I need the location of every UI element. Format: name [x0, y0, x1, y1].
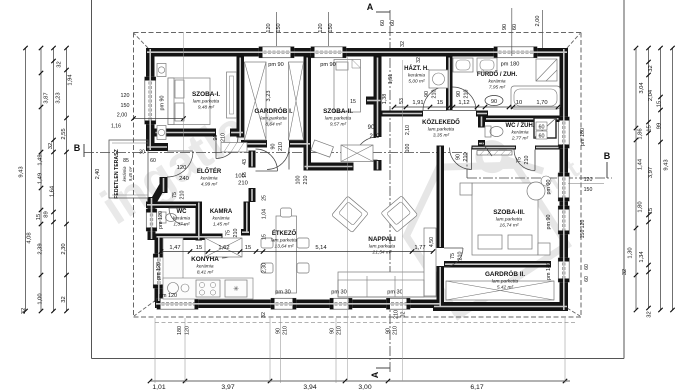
svg-text:SZOBA-II.: SZOBA-II. — [323, 108, 353, 115]
armchair nappali 2 — [381, 196, 418, 233]
washer hazt h — [429, 70, 448, 88]
wall hazt h south — [382, 111, 424, 117]
svg-text:60: 60 — [584, 276, 590, 282]
svg-text:kerámia: kerámia — [122, 166, 127, 182]
svg-text:120: 120 — [584, 177, 593, 183]
wall wc zuh south thin — [472, 146, 517, 150]
wall exterior left upper — [146, 48, 155, 151]
svg-text:9,45 m²: 9,45 m² — [128, 166, 133, 181]
bottom dimension line — [150, 380, 570, 382]
svg-text:3,97: 3,97 — [221, 384, 234, 390]
svg-text:FEDETLEN TERASZ: FEDETLEN TERASZ — [114, 148, 120, 198]
wall exterior bottom left section — [155, 300, 441, 309]
svg-text:60: 60 — [539, 125, 545, 131]
svg-text:3,87: 3,87 — [44, 92, 50, 103]
window top furdo pm180 — [494, 47, 537, 58]
washbasins furdo — [453, 58, 473, 72]
wall exterior top — [146, 48, 568, 57]
window bottom kitchen pm120 — [157, 298, 198, 309]
interior dim chain hazt/furdo y107 — [394, 106, 558, 108]
door szoba III 75/210 — [514, 150, 535, 171]
svg-text:pm 180: pm 180 — [546, 262, 552, 280]
svg-text:210: 210 — [463, 153, 469, 162]
svg-text:2,77 m²: 2,77 m² — [511, 135, 529, 141]
svg-text:75: 75 — [226, 230, 232, 236]
svg-text:✳: ✳ — [233, 285, 239, 293]
svg-text:KÖZLEKEDŐ: KÖZLEKEDŐ — [422, 119, 460, 126]
svg-text:kerámia: kerámia — [196, 263, 213, 269]
svg-text:kerámia: kerámia — [200, 175, 217, 181]
svg-text:13,64 m²: 13,64 m² — [275, 243, 294, 249]
svg-text:210: 210 — [303, 176, 309, 185]
svg-text:2,30: 2,30 — [61, 243, 67, 254]
svg-text:pm 90: pm 90 — [160, 96, 166, 111]
svg-text:B: B — [604, 151, 611, 161]
window bottom nappali pm30 right — [387, 298, 411, 309]
svg-text:1,47: 1,47 — [169, 245, 180, 251]
wall wc zuh west lower post — [478, 140, 485, 147]
window bottom nappali pm30 left — [330, 298, 352, 309]
svg-text:60: 60 — [380, 20, 386, 26]
svg-text:pm 120: pm 120 — [158, 211, 164, 229]
wall exterior left kitchen part — [155, 236, 164, 302]
svg-text:32: 32 — [401, 312, 407, 318]
wall szoba I south east piece — [230, 129, 244, 137]
svg-text:SZOBA-III.: SZOBA-III. — [493, 209, 525, 216]
svg-text:kerámia: kerámia — [488, 78, 505, 84]
svg-text:60: 60 — [512, 24, 518, 30]
door kamra 75/210 — [222, 240, 240, 258]
svg-text:150: 150 — [121, 103, 130, 109]
wardrobe szoba II south — [341, 145, 373, 162]
svg-text:1,70: 1,70 — [536, 100, 547, 106]
svg-text:GARDRÓB I.: GARDRÓB I. — [254, 106, 293, 115]
svg-text:100: 100 — [405, 144, 411, 153]
door szoba II 90/210 — [355, 137, 378, 160]
svg-text:HÁZT. H.: HÁZT. H. — [404, 65, 429, 72]
wall szoba II east lower post — [374, 160, 382, 171]
svg-text:32: 32 — [648, 65, 654, 71]
bed szoba II — [334, 60, 361, 113]
wall szoba III north east thin — [535, 146, 560, 150]
svg-text:pm 30: pm 30 — [275, 290, 291, 296]
left dimension chains — [25, 48, 27, 311]
svg-text:89: 89 — [44, 211, 50, 217]
svg-text:210: 210 — [393, 326, 399, 335]
svg-text:lam.parketta: lam.parketta — [369, 243, 396, 249]
vent line chimney — [511, 8, 513, 56]
svg-text:5,14: 5,14 — [315, 245, 327, 251]
svg-text:60: 60 — [150, 158, 156, 164]
svg-text:pm 120: pm 120 — [159, 293, 177, 299]
window right szoba III pm90 lower — [558, 206, 569, 234]
svg-text:B: B — [74, 143, 81, 153]
wall gardrob I south — [241, 140, 267, 148]
dining chairs — [281, 208, 292, 217]
svg-text:90: 90 — [456, 91, 462, 97]
nightstands szoba I — [157, 64, 166, 77]
door szoba I 90/210 — [216, 137, 238, 159]
svg-text:A: A — [367, 2, 374, 12]
svg-text:1,45 m²: 1,45 m² — [213, 221, 230, 227]
svg-text:3,94: 3,94 — [303, 384, 316, 390]
svg-text:6,17: 6,17 — [470, 384, 483, 390]
svg-text:1,51: 1,51 — [388, 74, 394, 85]
door entry 120/240 — [167, 151, 193, 177]
svg-text:kerámia: kerámia — [173, 215, 190, 221]
svg-text:pm 90: pm 90 — [268, 62, 284, 68]
svg-text:ÉTKEZŐ: ÉTKEZŐ — [272, 229, 297, 237]
svg-text:150: 150 — [276, 23, 282, 32]
watermark — [91, 84, 282, 235]
wall nappali / szoba III divider — [437, 146, 445, 249]
roof outline dashed — [134, 32, 582, 34]
dresser szoba II — [311, 140, 334, 157]
svg-text:lam.parketta: lam.parketta — [193, 98, 220, 104]
svg-text:150: 150 — [580, 230, 586, 239]
door kozlekedo-nappali 90/210 — [450, 148, 472, 170]
svg-text:120: 120 — [580, 220, 586, 229]
door furdo 90/210 — [453, 87, 477, 111]
window right gardrob II pm180 — [558, 258, 569, 282]
svg-text:1,01: 1,01 — [152, 384, 165, 390]
svg-text:WC: WC — [177, 209, 188, 215]
svg-text:210: 210 — [220, 133, 226, 142]
wall szoba I / gardrob I — [237, 57, 245, 138]
svg-text:3,97: 3,97 — [648, 167, 654, 178]
svg-text:pm 90: pm 90 — [320, 62, 336, 68]
svg-text:15: 15 — [242, 172, 248, 178]
shower furdo corner — [536, 59, 557, 81]
section line B-B — [84, 152, 467, 154]
svg-text:32: 32 — [647, 311, 653, 317]
svg-text:210: 210 — [457, 252, 463, 261]
bottom extension lines — [154, 318, 156, 383]
svg-text:pm 120: pm 120 — [156, 262, 162, 280]
svg-text:100: 100 — [296, 176, 302, 185]
svg-text:16,74 m²: 16,74 m² — [500, 222, 519, 228]
svg-text:4,50: 4,50 — [429, 237, 435, 247]
svg-text:2,39: 2,39 — [38, 243, 44, 254]
svg-text:1,30: 1,30 — [628, 247, 634, 258]
svg-text:21,54 m²: 21,54 m² — [372, 249, 392, 255]
svg-text:60: 60 — [584, 264, 590, 270]
kitchen counter left — [163, 238, 183, 280]
pantry cabinet X — [205, 238, 242, 257]
window left wc pm120 — [146, 209, 156, 231]
svg-text:1,86: 1,86 — [638, 128, 644, 139]
svg-text:3,23: 3,23 — [266, 91, 272, 102]
window left kitchen pm120 — [153, 254, 164, 288]
svg-text:pm 90: pm 90 — [546, 215, 552, 230]
svg-text:15: 15 — [196, 245, 202, 251]
svg-text:85: 85 — [123, 158, 129, 164]
wall gardrob I / szoba II — [304, 57, 312, 171]
section line A-A — [389, 10, 391, 372]
radiator below wc zuh wall — [477, 151, 512, 156]
svg-text:2,04: 2,04 — [648, 89, 654, 101]
wall szoba III / gardrob II — [444, 261, 551, 268]
door hazt h 90/210 — [423, 87, 447, 111]
svg-text:5,42 m²: 5,42 m² — [497, 284, 514, 290]
svg-text:43: 43 — [242, 159, 248, 165]
svg-text:60: 60 — [390, 20, 396, 26]
svg-text:5,00 m²: 5,00 m² — [408, 78, 425, 84]
svg-text:3,00: 3,00 — [358, 384, 371, 390]
svg-text:90: 90 — [502, 24, 508, 30]
svg-text:NAPPALI: NAPPALI — [368, 236, 396, 243]
window left szoba I pm90 — [145, 77, 156, 124]
door wc zuh leaf — [482, 142, 493, 156]
sofa nappali corner — [338, 272, 436, 297]
svg-text:pm 180: pm 180 — [501, 62, 520, 68]
svg-text:1,64: 1,64 — [50, 185, 56, 197]
svg-text:210: 210 — [238, 181, 248, 187]
svg-text:1,77: 1,77 — [414, 245, 425, 251]
svg-text:32: 32 — [261, 312, 267, 318]
svg-text:kerámia: kerámia — [408, 72, 425, 78]
roof offset line 2,00 — [542, 10, 544, 48]
svg-text:90: 90 — [213, 135, 219, 141]
window top szoba II pm90 — [311, 47, 346, 58]
svg-text:lam.parketta: lam.parketta — [271, 237, 298, 243]
svg-text:1,91: 1,91 — [412, 100, 423, 106]
wall stub below entry door — [160, 177, 168, 193]
svg-text:90: 90 — [386, 328, 392, 334]
wall szoba II east upper — [374, 57, 382, 138]
svg-text:4,08: 4,08 — [27, 232, 33, 243]
svg-text:1,94: 1,94 — [68, 74, 74, 86]
svg-text:ELŐTÉR: ELŐTÉR — [197, 167, 222, 175]
svg-text:210: 210 — [283, 326, 289, 335]
svg-text:90: 90 — [424, 91, 430, 97]
svg-text:90: 90 — [368, 125, 375, 131]
wall kamra east — [244, 202, 251, 234]
svg-text:75: 75 — [517, 157, 523, 163]
svg-text:9,43: 9,43 — [19, 166, 25, 177]
wall exterior left WC part — [148, 197, 156, 240]
svg-text:1,16: 1,16 — [111, 124, 121, 130]
svg-text:180: 180 — [177, 326, 183, 335]
wall core stripes — [147, 49, 567, 310]
svg-text:210: 210 — [524, 156, 530, 165]
armchair nappali 1 — [332, 196, 369, 233]
svg-text:KONYHA: KONYHA — [191, 256, 219, 263]
fedetlen terasz outline — [109, 140, 148, 198]
svg-text:KAMRA: KAMRA — [210, 209, 233, 215]
wall eloter east — [249, 151, 256, 168]
dining table etkezo — [276, 216, 297, 293]
top window dims 120/150 szoba II — [328, 12, 330, 46]
wall wc / kamra divider — [196, 202, 203, 241]
bed szoba I — [168, 78, 210, 125]
svg-text:32: 32 — [48, 143, 54, 149]
svg-text:2,00: 2,00 — [535, 16, 541, 27]
svg-text:2,30: 2,30 — [262, 263, 268, 273]
svg-text:1,38: 1,38 — [382, 94, 388, 105]
svg-text:120: 120 — [266, 23, 272, 32]
svg-text:210: 210 — [278, 142, 284, 151]
svg-text:8,64 m²: 8,64 m² — [265, 121, 282, 127]
svg-text:150: 150 — [328, 23, 334, 32]
svg-text:9,48 m²: 9,48 m² — [198, 104, 215, 110]
svg-text:2,40: 2,40 — [95, 169, 101, 180]
svg-text:SZOBA-I.: SZOBA-I. — [192, 91, 220, 98]
svg-text:32: 32 — [61, 296, 67, 302]
svg-text:150: 150 — [584, 187, 593, 193]
chair szoba III corner — [527, 182, 545, 200]
svg-text:1,00: 1,00 — [38, 293, 44, 304]
svg-text:210: 210 — [431, 90, 437, 99]
interior dim chain kitchen y251 — [161, 251, 433, 253]
svg-text:1,37 m²: 1,37 m² — [173, 221, 190, 227]
svg-text:1,80: 1,80 — [638, 201, 644, 212]
svg-text:120: 120 — [177, 165, 187, 171]
svg-text:9,43: 9,43 — [664, 159, 670, 170]
wall wc kamra south — [156, 234, 223, 241]
toilet wc zuh — [485, 126, 491, 137]
svg-text:1,49: 1,49 — [38, 173, 44, 184]
svg-text:210: 210 — [337, 326, 343, 335]
door wc 60/210 — [169, 208, 186, 225]
svg-text:30: 30 — [139, 150, 145, 156]
svg-text:120: 120 — [185, 326, 191, 335]
svg-text:15: 15 — [437, 100, 443, 106]
svg-text:2,55: 2,55 — [61, 128, 67, 139]
svg-text:90: 90 — [330, 328, 336, 334]
svg-text:1,44: 1,44 — [638, 158, 644, 170]
wall wc north — [146, 202, 197, 209]
wall wc zuh west upper post — [478, 116, 485, 128]
wardrobe gardrob II — [446, 281, 554, 300]
svg-text:90: 90 — [456, 154, 462, 160]
svg-text:25: 25 — [262, 195, 268, 201]
svg-text:15: 15 — [350, 99, 356, 105]
svg-text:32: 32 — [400, 41, 406, 47]
svg-text:GARDRÓB II.: GARDRÓB II. — [485, 269, 525, 278]
page border — [91, 0, 93, 359]
svg-text:kerámia: kerámia — [511, 129, 528, 135]
svg-text:lam.parketta: lam.parketta — [492, 278, 519, 284]
svg-text:120: 120 — [121, 93, 130, 99]
window right wczuh pm180 — [558, 117, 569, 148]
svg-text:60: 60 — [539, 134, 545, 140]
door etkezo 100/210 — [256, 149, 278, 171]
svg-text:lam.parketta: lam.parketta — [496, 216, 523, 222]
svg-text:FÜRDŐ / ZUH.: FÜRDŐ / ZUH. — [477, 71, 518, 78]
bed szoba III — [472, 183, 538, 255]
svg-text:lam.parketta: lam.parketta — [260, 115, 287, 121]
svg-text:15: 15 — [647, 125, 653, 131]
svg-text:210: 210 — [369, 134, 380, 140]
svg-text:10: 10 — [516, 100, 522, 106]
svg-text:32: 32 — [57, 61, 63, 67]
svg-text:8,41 m²: 8,41 m² — [197, 269, 214, 275]
svg-text:2,10: 2,10 — [405, 125, 411, 135]
wall diagonal jog to WC corner — [148, 184, 168, 204]
cabinet eloter — [221, 143, 247, 153]
wardrobe szoba I east — [227, 72, 237, 118]
svg-text:3,23: 3,23 — [56, 92, 62, 103]
svg-text:WC / ZUH.: WC / ZUH. — [506, 123, 535, 129]
svg-text:32: 32 — [622, 269, 628, 275]
svg-text:15: 15 — [245, 245, 251, 251]
svg-text:75: 75 — [172, 192, 178, 198]
kitchen counter bottom — [163, 278, 253, 299]
svg-text:210: 210 — [394, 310, 400, 319]
wall furdo south post — [476, 111, 488, 117]
svg-text:A: A — [370, 371, 380, 378]
svg-text:15: 15 — [648, 208, 654, 214]
svg-text:kerámia: kerámia — [212, 215, 229, 221]
window right szoba III pm90 upper — [558, 173, 569, 201]
svg-text:3,35 m²: 3,35 m² — [433, 132, 450, 138]
right dimension chains — [635, 48, 637, 310]
svg-text:lam.parketta: lam.parketta — [428, 126, 455, 132]
shower wc zuh — [534, 118, 556, 138]
svg-text:120: 120 — [318, 23, 324, 32]
svg-text:1,12: 1,12 — [458, 100, 469, 106]
svg-text:1,34: 1,34 — [639, 251, 645, 263]
door gardrob I 90/210 — [267, 148, 289, 170]
wall entry jamb — [146, 143, 168, 151]
svg-text:32: 32 — [21, 308, 27, 314]
svg-text:9,57 m²: 9,57 m² — [330, 121, 347, 127]
svg-text:3,04: 3,04 — [639, 82, 645, 94]
roof hip corner dashes — [134, 34, 148, 49]
svg-text:32: 32 — [416, 57, 422, 63]
window top gardrob I pm90 — [259, 47, 294, 58]
wall kamra door jamb south — [241, 229, 250, 236]
toilet wc — [160, 212, 166, 223]
svg-text:210: 210 — [463, 90, 469, 99]
wardrobes gardrob I — [245, 62, 267, 140]
kitchen stove — [196, 280, 220, 297]
svg-text:15: 15 — [657, 101, 663, 107]
wall szoba II south — [304, 163, 354, 171]
window bottom etkezo pm30 — [271, 298, 296, 309]
top window dims 120/150 gardrob — [276, 12, 278, 46]
wall exterior bottom right section — [433, 302, 568, 311]
wall szoba I south — [155, 129, 217, 137]
svg-text:2,00: 2,00 — [117, 113, 128, 119]
svg-text:pm 180: pm 180 — [580, 128, 586, 146]
svg-text:15: 15 — [36, 214, 42, 220]
svg-text:240: 240 — [179, 176, 189, 182]
svg-text:210: 210 — [233, 229, 239, 238]
kitchen fridge — [225, 280, 247, 297]
svg-text:1,62: 1,62 — [218, 245, 229, 251]
svg-text:4,99 m²: 4,99 m² — [201, 181, 218, 187]
svg-text:7,95 m²: 7,95 m² — [489, 84, 506, 90]
svg-text:pm 30: pm 30 — [387, 290, 403, 296]
wall exterior right — [560, 48, 569, 311]
svg-text:1,04: 1,04 — [262, 209, 268, 219]
wall hazt h / furdo — [446, 57, 453, 111]
svg-text:pm 30: pm 30 — [331, 290, 347, 296]
svg-text:15: 15 — [262, 234, 268, 240]
svg-text:90: 90 — [491, 99, 497, 105]
svg-text:90: 90 — [271, 144, 277, 150]
svg-text:1,49: 1,49 — [38, 154, 44, 165]
door gardrob II 75/210 — [444, 248, 463, 267]
svg-text:99: 99 — [657, 123, 663, 129]
svg-text:pm 90: pm 90 — [546, 180, 552, 195]
svg-text:53: 53 — [399, 98, 405, 104]
svg-text:210: 210 — [179, 191, 185, 200]
svg-text:75: 75 — [450, 253, 456, 259]
bathtub furdo — [511, 86, 560, 109]
